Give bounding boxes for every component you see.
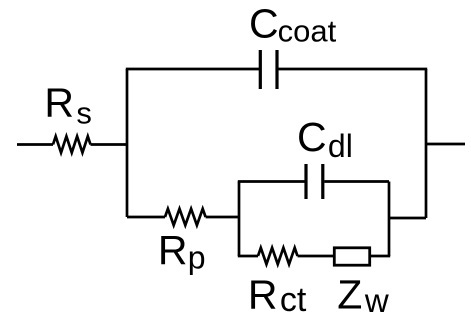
wire Rp branch left [127,216,165,219]
label Ccoat [249,1,337,49]
warburg element Zw [334,248,369,265]
svg-text:p: p [188,240,206,276]
wire Zw to inner right [371,255,390,258]
capacitor Ccoat [260,50,277,89]
wire outer left vertical [126,69,129,217]
wire outer top right [279,68,428,71]
svg-text:coat: coat [278,13,337,48]
wire inner to outer right connector [389,217,426,220]
svg-text:w: w [364,282,389,319]
wire inner top right [324,180,389,183]
wire inner right vertical [388,182,391,257]
label Zw [337,271,389,319]
resistor Rp [165,209,206,225]
resistor Rs [53,136,90,152]
label Rct [248,272,307,320]
wire inner top left [238,180,305,183]
wire left lead [17,143,53,146]
svg-text:R: R [248,272,278,318]
wire outer right vertical [425,69,428,218]
svg-text:ct: ct [280,281,307,319]
wire Rp to inner box [206,216,239,219]
svg-text:R: R [44,80,74,126]
svg-text:Z: Z [337,271,362,317]
svg-text:C: C [297,114,327,160]
wire inner left vertical [238,182,241,257]
wire right lead [426,143,465,146]
capacitor Cdl [306,164,323,199]
label Cdl [297,114,353,164]
label Rs [44,80,92,131]
svg-text:s: s [76,96,92,131]
svg-text:R: R [158,227,188,273]
wire Rct to Zw [298,255,334,258]
label Rp [158,227,206,276]
wire outer top left [126,68,260,71]
wire inner bottom left [238,255,258,258]
svg-text:C: C [249,1,279,47]
resistor Rct [258,248,297,264]
wire Rs to left junction [91,143,128,146]
svg-text:dl: dl [328,128,353,164]
